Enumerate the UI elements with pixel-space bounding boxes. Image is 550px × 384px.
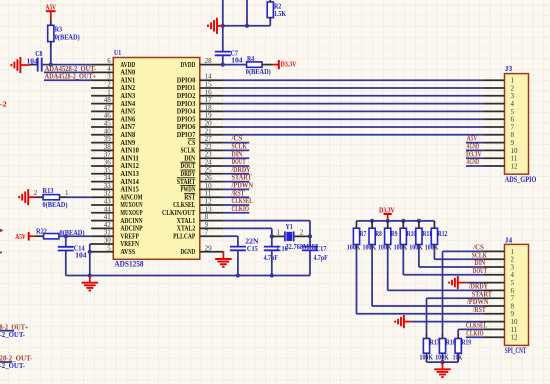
svg-text:ADS1258: ADS1258 [114,260,143,269]
svg-text:21: 21 [205,127,213,135]
svg-text:6: 6 [107,57,111,65]
svg-text:ADS_GPIO: ADS_GPIO [505,175,537,184]
svg-text:45: 45 [104,120,112,128]
svg-text:44: 44 [104,205,112,213]
svg-text:R7: R7 [360,229,367,238]
svg-text:24: 24 [205,159,213,167]
svg-text:18: 18 [205,104,213,112]
wire R8 to J4 net [371,251,373,306]
svg-text:C17: C17 [316,244,327,253]
svg-text:27: 27 [205,135,213,143]
svg-text:-2_OUT-: -2_OUT- [0,330,26,339]
U1 right pins with numbers [162,57,224,256]
resistor R8 100K [363,221,382,251]
cut label speck at left edge [0,252,2,254]
svg-text:5: 5 [511,108,515,116]
svg-text:15: 15 [205,81,213,89]
ground at C8 [11,57,30,73]
svg-text:22: 22 [205,143,213,151]
wire R10 to J4 net [402,251,404,275]
svg-text:38: 38 [104,143,112,151]
net label AGND at J3 pin 12 [466,157,483,166]
wire R17 column to START [426,298,428,333]
svg-text:11: 11 [511,155,518,163]
wire DVDD pin 28 to R4 [223,64,247,66]
wire pulldown bus [427,360,459,364]
svg-text:ADA4528-2_OUT+: ADA4528-2_OUT+ [45,72,97,81]
wire analog ground bus [66,275,310,277]
resistor R19 10K [453,333,471,362]
svg-text:26: 26 [205,174,213,182]
svg-text:DVDD: DVDD [181,60,196,69]
svg-text:D3.3V: D3.3V [281,59,297,68]
svg-text:A5V: A5V [46,2,57,11]
svg-text:16: 16 [205,88,213,96]
svg-text:40: 40 [104,127,112,135]
svg-text:6: 6 [511,287,515,295]
wire pullup bus D3.3V [357,219,435,223]
net label DIN at J4 with wire [419,258,486,267]
wire U1 XTAL2 to crystal left [224,228,274,238]
svg-text:5: 5 [511,279,515,287]
svg-text:9: 9 [511,139,515,147]
net label /PDWN at U1 [224,181,254,190]
resistor R22 0(BEAD) [36,226,85,239]
wire U1 PLLCAP to C15 [224,236,238,246]
svg-text:5: 5 [107,244,111,252]
resistor R12 100K [425,221,448,251]
resistor R7 100K [347,221,366,251]
cut net label 28-2_OUT- at left edge [0,354,33,363]
wire R22 to U1 VREFP pin 31 [59,234,91,238]
svg-text:17: 17 [205,96,213,104]
svg-text:30: 30 [104,237,112,245]
svg-text:47: 47 [104,104,112,112]
svg-text:33: 33 [104,182,112,190]
svg-text:100K: 100K [347,242,361,251]
ground at J4 pin 10 [395,315,483,328]
svg-text:11: 11 [205,190,212,198]
net label CLKSEL at U1 [224,196,253,205]
net label SCLK at J4 with wire [434,250,487,259]
net label /CS at J4 with wire [443,243,484,252]
node AVDD junction [49,63,53,67]
svg-text:10: 10 [205,182,213,190]
svg-text:AGND: AGND [466,157,479,166]
svg-text:R17: R17 [430,338,440,347]
capacitor C17 4.7pF [302,236,328,275]
ground at R13 [19,189,35,205]
resistor R3 0(BEAD) [48,21,80,47]
net label ADA4528-2_OUT+ with wire to AIN1 [44,72,96,81]
svg-text:R9: R9 [391,229,398,238]
capacitor C7 104 [215,48,243,64]
net label SCLK at U1 [224,142,250,151]
svg-text:34: 34 [104,174,112,182]
ground at J4 pin 5 [449,276,483,289]
svg-text:8: 8 [511,131,515,139]
svg-text:-2_OUT-: -2_OUT- [0,361,26,370]
svg-text:12: 12 [511,162,519,170]
svg-text:DGND: DGND [181,247,196,256]
wire horizontal to R2 [223,25,270,27]
svg-text:100K: 100K [378,242,392,251]
svg-text:7: 7 [511,295,515,303]
svg-text:U1: U1 [114,48,121,57]
svg-text:1: 1 [65,189,69,197]
svg-text:R10: R10 [407,229,417,238]
wire R7 to J4 net [356,251,358,314]
cut net label 8-2_OUT+ at left edge [0,322,29,331]
cut power port at left edge [0,229,4,233]
svg-text:C15: C15 [247,244,258,253]
svg-text:0(BEAD): 0(BEAD) [246,67,271,76]
net label START at J4 with wire [427,289,493,298]
svg-text:R18: R18 [446,338,456,347]
svg-text:2: 2 [511,256,515,264]
net label DIN at U1 [224,149,250,158]
svg-text:42: 42 [104,221,112,229]
wire bus DPIO0-DPIO7 to J3 pins 1-8 [224,80,484,135]
net label /PDWN at J4 with wire [372,297,489,306]
svg-text:1: 1 [107,88,111,96]
ground below pulldowns [434,362,451,377]
svg-text:R19: R19 [462,338,472,347]
wire from top edge to C7 [222,0,224,51]
ground top center [208,18,223,34]
net label DOUT at U1 [224,157,250,166]
svg-text:28: 28 [205,57,213,65]
net label /RST at J4 with wire [356,305,486,314]
svg-text:25: 25 [205,166,213,174]
svg-text:4: 4 [107,65,111,73]
svg-text:J3: J3 [505,64,513,73]
svg-text:100K: 100K [425,242,439,251]
capacitor C8 104 [27,49,43,71]
resistor R11 100K [409,221,432,251]
svg-text:CLKIO: CLKIO [466,328,484,337]
resistor R17 100K [420,333,440,362]
svg-text:13: 13 [205,205,213,213]
svg-text:36: 36 [104,159,112,167]
svg-text:0(BEAD): 0(BEAD) [55,32,80,41]
net label DOUT at J4 with wire [403,266,487,275]
svg-text:4: 4 [511,271,515,279]
wire R11 to J4 net [418,251,420,267]
svg-text:1: 1 [511,248,515,256]
svg-text:2: 2 [107,81,111,89]
wire R3 to AVDD node [50,47,52,65]
wire U1 VREFN pin 30 down to AVSS [88,244,92,276]
wire R19 column to CLKSEL [457,329,459,332]
net label CLKIO at J4 with wire [466,328,484,337]
svg-text:11: 11 [511,326,518,334]
svg-text:37: 37 [104,151,112,159]
svg-text:1: 1 [277,228,281,236]
net label AGND at J3 pin 10 [466,142,483,151]
svg-text:4.7pF: 4.7pF [314,253,329,262]
ground at U1 DGND pin 29 [215,252,232,267]
svg-text:-2: -2 [0,99,7,108]
svg-text:6: 6 [511,116,515,124]
svg-text:23: 23 [205,151,213,159]
svg-text:104: 104 [231,55,243,64]
svg-text:100K: 100K [363,242,377,251]
resistor R4 0(BEAD) [246,54,272,76]
svg-text:CLKIO: CLKIO [232,204,250,213]
resistor R9 100K [378,221,397,251]
svg-text:4: 4 [511,100,515,108]
wire R13 to U1 AINCOM [67,196,91,198]
resistor R13 0(BEAD) [34,186,69,209]
svg-text:A5V: A5V [15,232,26,241]
svg-text:14: 14 [205,73,213,81]
svg-text:1: 1 [511,77,515,85]
svg-text:R12: R12 [438,229,448,238]
svg-text:20: 20 [205,120,213,128]
svg-text:1.5K: 1.5K [274,9,286,18]
svg-text:8: 8 [511,302,515,310]
svg-text:3: 3 [511,92,515,100]
net label A5V at J3 pin 9 [466,134,483,143]
cut label -2_OUT- blue [0,330,26,339]
svg-text:10: 10 [511,147,519,155]
svg-text:2: 2 [300,228,304,236]
cut net label -2 at left edge [0,99,7,108]
net label CLKIO at U1 [224,204,250,213]
svg-text:29: 29 [205,244,213,252]
svg-text:7: 7 [511,123,515,131]
net label D3.3V at J3 pin 11 [466,149,483,158]
wire R12 to J4 net [433,251,435,260]
analog ground below bus [82,273,99,290]
svg-text:3: 3 [107,73,111,81]
svg-text:SPI_CNT: SPI_CNT [505,346,527,355]
net label /CS at U1 [224,134,250,143]
wire C8 to U1 AVDD pin 6 [42,64,91,66]
wire U1 XTAL1 to crystal right [224,221,313,239]
capacitor C16 4.7pF [264,236,288,277]
cut label -2_OUT- blue second [0,361,26,370]
wire R18 column to /CS [442,251,444,332]
svg-text:8: 8 [205,213,209,221]
net label ADA4528-2_OUT- with wire to AIN0 [44,64,97,73]
capacitor C15 22N [230,237,259,278]
power port D3.3V at pullups [379,205,395,221]
svg-text:R8: R8 [375,229,382,238]
svg-text:12: 12 [511,334,519,342]
svg-text:43: 43 [104,198,112,206]
svg-text:35: 35 [104,166,112,174]
svg-text:32: 32 [104,190,112,198]
svg-text:100K: 100K [409,242,423,251]
resistor R18 100K [435,333,455,362]
wire from top edge second [245,0,249,28]
svg-text:46: 46 [104,112,112,120]
connector J4 SPI_CNT [483,236,528,356]
svg-text:31: 31 [104,229,112,237]
IC U1 ADS1258 [113,48,200,269]
net label /DRDY at J4 with wire [388,282,489,291]
svg-text:104: 104 [75,251,87,260]
resistor R10 100K [394,221,417,251]
power port A5V at R22 [15,232,35,241]
net label START at U1 [224,173,252,182]
svg-text:Y1: Y1 [286,222,293,231]
svg-text:12: 12 [205,198,213,206]
svg-text:19: 19 [205,112,213,120]
svg-text:3: 3 [511,263,515,271]
svg-text:39: 39 [104,135,112,143]
power port A5V [46,2,57,20]
svg-text:2: 2 [511,84,515,92]
svg-text:0(BEAD): 0(BEAD) [43,200,68,209]
svg-text:C16: C16 [277,244,288,253]
net label /RST at U1 [224,188,250,197]
svg-text:4.7pF: 4.7pF [264,253,279,262]
net label /DRDY at U1 [224,165,251,174]
svg-text:9: 9 [205,221,209,229]
svg-text:48: 48 [104,96,112,104]
U1 left pins with numbers [91,57,143,256]
svg-text:J4: J4 [505,236,513,245]
svg-text:PLLCAP: PLLCAP [173,231,196,240]
node DVDD junction [221,24,225,67]
svg-text:7: 7 [205,229,209,237]
svg-text:100K: 100K [394,242,408,251]
power port D3.3V at R4 [272,59,297,69]
connector J3 ADS_GPIO [483,64,536,184]
net label CLKSEL at J4 with wire [458,321,487,330]
resistor R2 1.5K [267,0,286,26]
capacitor C14 104 [58,236,87,275]
svg-text:AVSS: AVSS [120,247,135,256]
svg-text:41: 41 [104,213,112,221]
svg-text:10: 10 [511,318,519,326]
svg-text:2: 2 [34,189,38,197]
svg-text:9: 9 [511,310,515,318]
crystal Y1 32.768MHZ [272,222,318,251]
wire R9 to J4 net [387,251,389,291]
